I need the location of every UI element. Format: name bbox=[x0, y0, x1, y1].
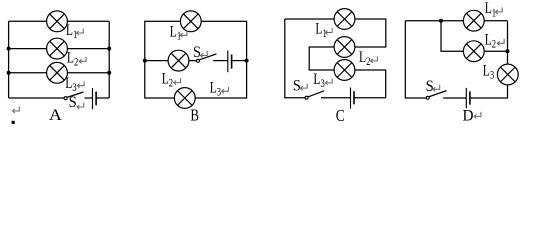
svg-text:B: B bbox=[190, 107, 199, 124]
svg-text:S: S bbox=[426, 77, 434, 95]
svg-text:A: A bbox=[49, 106, 63, 124]
svg-text:D: D bbox=[463, 107, 474, 124]
svg-text:S: S bbox=[293, 77, 301, 95]
svg-text:C: C bbox=[336, 108, 345, 124]
svg-text:S: S bbox=[193, 43, 201, 61]
svg-text:S: S bbox=[69, 93, 77, 111]
